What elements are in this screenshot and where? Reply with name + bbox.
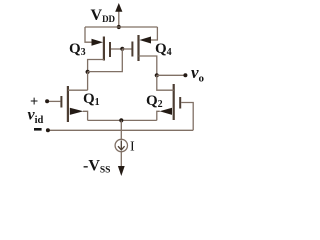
wire Q3 source drop — [85, 27, 92, 42]
power VDD arrow — [115, 3, 122, 27]
wire Q2 gate lead — [181, 103, 193, 131]
wire Q1 drain — [68, 89, 88, 91]
wire Q3 gate lead — [111, 48, 122, 50]
wire gate-drain connector — [88, 49, 123, 72]
node minus terminal dot — [46, 128, 50, 132]
power VSS arrow — [118, 166, 125, 176]
wire Q3 drain — [88, 60, 104, 72]
wire current source to VSS — [120, 152, 122, 167]
wire Q2 drain — [157, 75, 174, 90]
wire Q1 gate lead — [49, 100, 60, 102]
label minus sign — [34, 128, 42, 131]
junction gate node dot — [120, 47, 124, 51]
node plus terminal dot — [45, 99, 49, 103]
wire vo tap — [157, 74, 186, 76]
junction right drain node dot — [155, 73, 159, 77]
wire tail to current source — [120, 120, 122, 139]
junction VDD dot — [117, 25, 121, 29]
junction tail dot — [119, 118, 123, 122]
node vo terminal dot — [183, 73, 187, 77]
wire Q4 source drop — [151, 27, 157, 40]
wire gate to Q4 — [122, 48, 131, 50]
wire Q2 source — [157, 111, 160, 120]
wire Q4 drain — [139, 56, 157, 75]
svg-text:I: I — [130, 140, 135, 155]
transistor Q3 — [92, 37, 111, 61]
wire VDD rail — [85, 26, 157, 28]
current source I — [115, 139, 127, 151]
transistor Q2 — [160, 84, 181, 120]
wire Q3 drain to Q1 drain — [87, 72, 89, 90]
wire tail line — [88, 119, 157, 121]
transistor Q1 — [61, 86, 83, 122]
wire Q1 source — [83, 111, 88, 120]
wire minus input — [48, 129, 193, 131]
transistor Q4 — [132, 35, 151, 61]
junction left drain node dot — [86, 70, 90, 74]
